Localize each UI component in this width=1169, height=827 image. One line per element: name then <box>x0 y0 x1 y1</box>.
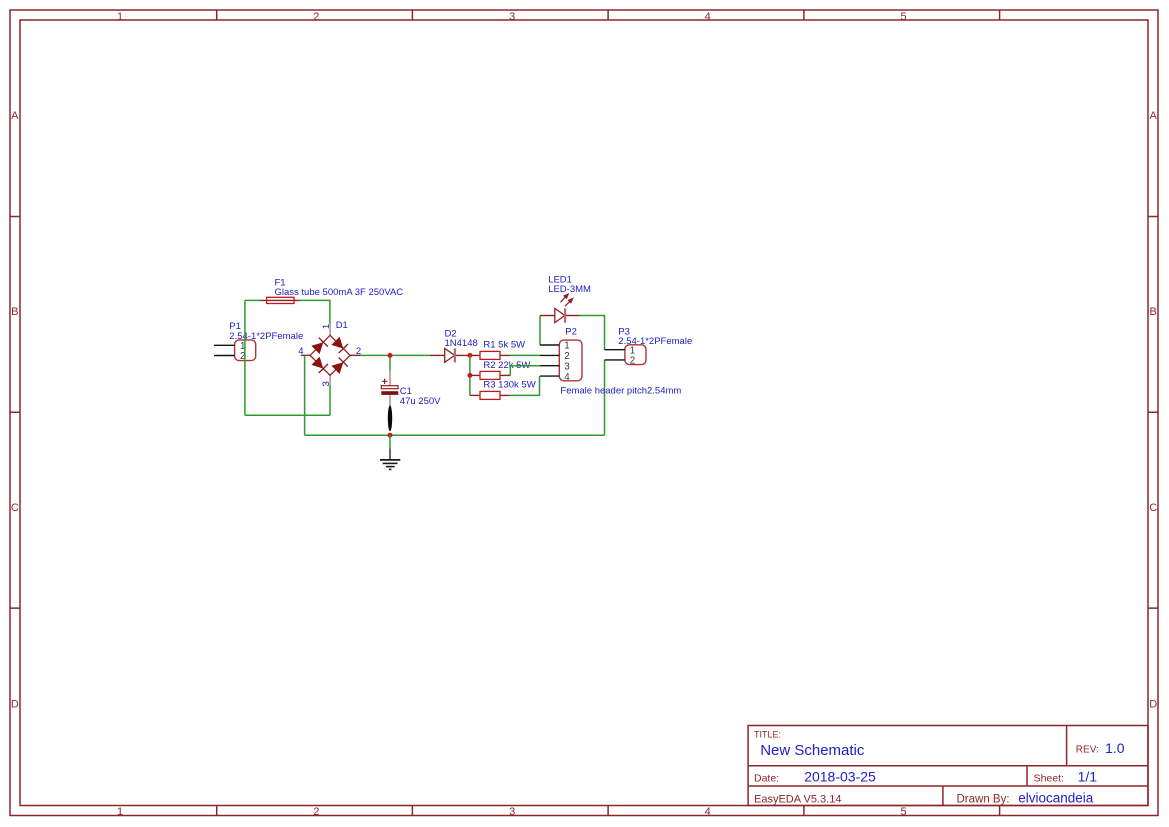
svg-text:Sheet:: Sheet: <box>1034 773 1064 785</box>
svg-text:2: 2 <box>313 11 319 23</box>
ground <box>380 449 400 470</box>
svg-text:2: 2 <box>356 346 361 357</box>
wire LED to P3 <box>580 316 605 350</box>
P1 pin 1 <box>214 341 245 352</box>
svg-text:Date:: Date: <box>754 773 779 785</box>
connector P3 <box>625 345 646 365</box>
wire bottom rail 2 <box>305 434 605 436</box>
svg-text:3: 3 <box>564 361 570 372</box>
resistor R2 <box>470 371 510 379</box>
P2 pin 1 <box>540 341 570 352</box>
svg-text:Glass tube 500mA 3F 250VAC: Glass tube 500mA 3F 250VAC <box>275 287 404 298</box>
fuse F1 <box>260 297 300 303</box>
svg-text:elviocandeia: elviocandeia <box>1018 791 1094 806</box>
svg-text:5: 5 <box>900 806 906 818</box>
svg-text:1: 1 <box>117 11 123 23</box>
svg-text:2: 2 <box>630 356 635 367</box>
wire LED branch up <box>539 316 541 346</box>
svg-text:REV:: REV: <box>1076 744 1099 755</box>
node junction R2 <box>467 373 472 378</box>
svg-text:1/1: 1/1 <box>1078 769 1098 785</box>
svg-text:1: 1 <box>321 324 332 329</box>
svg-text:1N4148: 1N4148 <box>445 338 478 349</box>
svg-text:R3 130k 5W: R3 130k 5W <box>483 380 535 391</box>
svg-text:2018-03-25: 2018-03-25 <box>804 769 876 785</box>
D2 labels <box>445 328 478 349</box>
resistor R3 <box>470 391 510 399</box>
svg-text:4: 4 <box>298 346 303 357</box>
svg-text:C: C <box>11 502 19 514</box>
wire D1 pin3 down <box>329 385 331 415</box>
LED1 labels <box>548 275 591 296</box>
svg-text:C: C <box>1149 502 1157 514</box>
svg-text:B: B <box>1150 306 1157 318</box>
wire top rail right <box>300 300 330 324</box>
wire P1 vertical <box>244 300 246 415</box>
wire D1 pin4 down <box>304 355 306 435</box>
F1 labels <box>275 278 404 299</box>
svg-text:2.54-1*2PFemale: 2.54-1*2PFemale <box>229 331 303 342</box>
svg-text:4: 4 <box>705 806 711 818</box>
P1 pin 2 <box>214 351 245 362</box>
P2 pin 3 <box>540 361 570 372</box>
svg-text:1.0: 1.0 <box>1105 740 1125 756</box>
bridge rectifier D1 <box>301 325 361 386</box>
wire bottom rail 1 <box>245 414 330 416</box>
svg-text:Drawn By:: Drawn By: <box>957 794 1010 806</box>
capacitor C1 <box>381 371 398 432</box>
wire P3 pin2 down <box>604 360 606 435</box>
svg-text:P2: P2 <box>565 326 577 337</box>
svg-text:4: 4 <box>564 372 570 383</box>
C1 labels <box>400 386 441 407</box>
P2 pin 4 <box>540 372 570 383</box>
node junction C1 top <box>388 353 393 358</box>
svg-text:1: 1 <box>117 806 123 818</box>
P3 pin 1 <box>605 345 636 356</box>
svg-text:2: 2 <box>313 806 319 818</box>
wire junction vertical R2 R3 <box>469 355 471 395</box>
svg-text:B: B <box>11 306 18 318</box>
diode D2 <box>430 348 480 362</box>
connector P1 <box>235 340 256 361</box>
wire R2 to P2 pin3 <box>510 366 540 376</box>
svg-text:EasyEDA V5.3.14: EasyEDA V5.3.14 <box>754 794 841 806</box>
svg-text:R1 5k 5W: R1 5k 5W <box>483 340 525 351</box>
svg-text:D: D <box>11 699 19 711</box>
P3 pin 2 <box>605 356 636 367</box>
svg-text:A: A <box>11 110 19 122</box>
svg-text:3: 3 <box>509 11 515 23</box>
wire D1 pin2 to D2 <box>361 354 430 356</box>
svg-text:5: 5 <box>900 11 906 23</box>
svg-text:Female header pitch2.54mm: Female header pitch2.54mm <box>560 386 681 397</box>
node junction D2 out <box>467 353 472 358</box>
svg-text:D1: D1 <box>336 320 348 331</box>
svg-text:New Schematic: New Schematic <box>760 742 865 759</box>
svg-text:3: 3 <box>509 806 515 818</box>
node junction C1 bottom <box>388 433 393 438</box>
resistor R1 <box>480 351 510 359</box>
connector P2 <box>559 340 582 381</box>
wire R3 to P2 pin4 <box>510 376 540 395</box>
svg-text:A: A <box>1150 110 1158 122</box>
svg-text:4: 4 <box>705 11 711 23</box>
wire P1 top rail left <box>245 299 260 301</box>
wire R1 to P2 pin2 <box>510 354 540 356</box>
wire C1 branch <box>389 355 391 370</box>
P1 labels <box>229 321 303 342</box>
P3 labels <box>618 326 692 347</box>
LED LED1 <box>540 294 580 323</box>
svg-text:2.54-1*2PFemale: 2.54-1*2PFemale <box>618 336 692 347</box>
svg-text:1: 1 <box>564 341 569 352</box>
title block <box>748 726 1148 806</box>
svg-text:D: D <box>1149 699 1157 711</box>
wire ground stub <box>389 435 391 448</box>
svg-text:47u 250V: 47u 250V <box>400 396 441 407</box>
svg-text:LED-3MM: LED-3MM <box>548 284 591 295</box>
P2 pin 2 <box>540 351 570 362</box>
svg-text:TITLE:: TITLE: <box>754 730 781 740</box>
